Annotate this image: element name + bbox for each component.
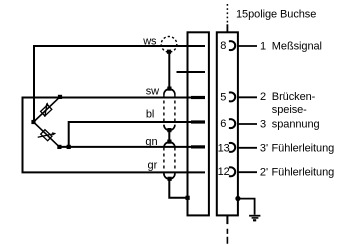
- crimp bar bl: [191, 120, 205, 123]
- svg-text:13: 13: [218, 143, 230, 155]
- twisted pair capsule sw/bl: [164, 89, 175, 95]
- junction dot shield to shell: [235, 196, 240, 201]
- svg-text:bl: bl: [146, 109, 154, 121]
- svg-text:Brücken-: Brücken-: [272, 91, 316, 103]
- svg-text:5: 5: [220, 91, 226, 103]
- svg-text:Fühlerleitung: Fühlerleitung: [272, 166, 335, 178]
- svg-text:speise-: speise-: [272, 104, 307, 116]
- ground: [249, 215, 260, 217]
- svg-text:gn: gn: [145, 136, 157, 148]
- svg-text:Fühlerleitung: Fühlerleitung: [272, 142, 335, 154]
- strain gauge R2 arrow: [38, 134, 55, 138]
- cable lay wire: [168, 52, 170, 89]
- node C junction: [57, 145, 61, 149]
- svg-text:12: 12: [218, 166, 230, 178]
- cable end wire to shell: [169, 179, 187, 198]
- twisted pair capsule gn/gr: [164, 142, 175, 148]
- svg-text:gr: gr: [148, 160, 158, 172]
- strain gauge R1 diagonal wire: [34, 97, 61, 122]
- shield wire to ground: [238, 199, 255, 215]
- junction dot circle bottom: [167, 50, 171, 54]
- svg-text:Meßsignal: Meßsignal: [272, 40, 322, 52]
- node B junction: [31, 120, 35, 124]
- strain gauge R1 arrow: [45, 103, 47, 117]
- strain gauge R2 diagonal wire: [34, 122, 60, 147]
- wire ws: [34, 46, 205, 122]
- svg-text:1: 1: [260, 40, 266, 52]
- cable lay wire: [168, 130, 170, 142]
- svg-text:ws: ws: [142, 35, 157, 47]
- junction dot on shell edge: [186, 196, 190, 200]
- svg-text:6: 6: [220, 118, 226, 130]
- svg-text:15polige Buchse: 15polige Buchse: [236, 9, 316, 21]
- junction dot capsule2 top: [167, 140, 171, 144]
- wire sw with left loop to gr: [23, 98, 206, 173]
- plug shell (left rectangle): [188, 32, 209, 215]
- unused stub wire: [177, 71, 206, 73]
- svg-text:8: 8: [220, 40, 226, 52]
- junction dot capsule1 top: [167, 87, 171, 91]
- strain gauge R2 body: [41, 130, 52, 141]
- svg-text:3: 3: [260, 119, 266, 131]
- socket shell (right rectangle): [217, 32, 238, 215]
- svg-text:2: 2: [260, 91, 266, 103]
- node D junction: [67, 145, 71, 149]
- svg-text:2': 2': [260, 166, 268, 178]
- centerline top (dash-dot): [226, 4, 228, 23]
- cable core circle ws (dashed): [161, 37, 177, 53]
- strain gauge R1 body: [41, 105, 52, 116]
- wire bl: [69, 122, 205, 147]
- junction dot capsule1 bottom: [167, 128, 171, 132]
- svg-text:sw: sw: [146, 85, 159, 97]
- junction dot capsule2 bottom: [168, 177, 172, 181]
- svg-text:3': 3': [260, 142, 268, 154]
- svg-text:spannung: spannung: [272, 119, 320, 131]
- crimp bar sw: [191, 96, 205, 99]
- node E junction on sw: [58, 95, 62, 99]
- wire gn: [59, 146, 205, 148]
- crimp bar gn: [191, 145, 205, 148]
- centerline bottom (dash-dot): [226, 215, 228, 224]
